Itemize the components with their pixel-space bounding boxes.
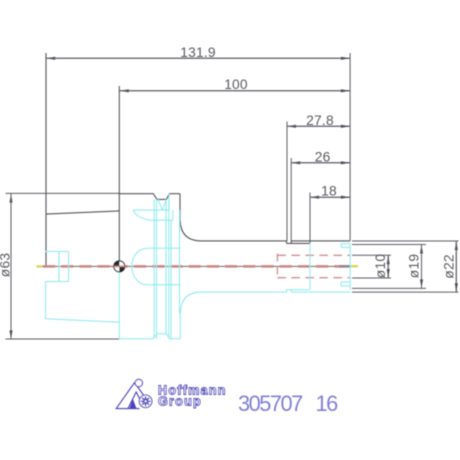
dim line 100 [120,90,350,92]
left face lower [45,282,47,319]
gauge plane vertical (also ext of 100) [118,86,120,267]
bore end vertical hidden [276,254,278,280]
flange groove horiz lower [150,219,173,221]
centerline yellow dash left [37,265,43,267]
logo head circle [135,379,142,386]
logo inner fold [128,392,140,409]
centerline continuous gray [38,265,351,267]
bore bottom hidden line [277,277,350,279]
cavity rounded end [132,248,147,285]
cavity bore bottom line [147,284,180,286]
svg-text:100: 100 [224,77,248,92]
extension line right common x=350 [349,53,351,241]
bottom slot-floor line [287,289,310,291]
top slot rounded [341,244,350,248]
fillet to body top [180,219,201,241]
flange inner vertical g [170,220,172,339]
shank end bore rect bottom [46,281,70,283]
gauge plane lower vertical [118,267,120,339]
bottom groove verticals [286,290,288,292]
extension line x=310 (18) [309,193,311,244]
svg-text:131.9: 131.9 [180,45,216,60]
dim line 26 [291,162,350,164]
V-groove left slant [158,200,163,211]
flange vertical b [156,200,158,339]
ext line dia63 bottom [6,338,120,340]
body top line [201,240,287,242]
svg-text:16: 16 [316,391,339,416]
flange groove hook arc [133,210,150,220]
flange top edge with V-notch [119,194,180,200]
flange right face bottom [179,314,181,339]
taper bottom slant [46,319,120,323]
centerline yellow dash right [351,265,358,267]
flange right face top [179,194,181,220]
extension line x=291.2 (26) [290,158,292,241]
flange vertical e [168,194,170,210]
body bottom line [201,291,287,293]
ext line dia63 top [6,192,121,194]
logo triangle outline [116,383,139,409]
CoG quadrant upper-left [114,261,120,267]
dimension texts [0,45,457,279]
bore step vertical 1 [58,252,60,282]
flange vertical f [172,210,174,220]
bottom slot rounded [341,282,350,286]
svg-text:ø10: ø10 [373,254,388,279]
logo wordmark [158,383,227,408]
cavity bore top line [147,247,180,249]
groove step verticals [286,241,288,244]
shank end bore rect top [46,251,70,253]
end section top [291,240,350,242]
dim line 18 [310,196,350,198]
ext lines right side diameters [352,240,459,242]
svg-text:ø63: ø63 [0,253,13,278]
extension line x=287 (27.8) [286,122,288,242]
fillet to body bottom [180,292,201,314]
flange vertical a [153,200,155,339]
svg-text:305707: 305707 [238,391,303,416]
gray end dash over slots [339,265,350,268]
V-groove right slant [162,200,166,211]
flange vertical c [165,200,167,334]
svg-text:18: 18 [321,184,337,199]
CoG white disc [114,261,125,272]
logo gear ring [139,395,152,408]
CoG circle [114,261,125,272]
slot start vertical [309,243,311,289]
logo right slope [135,383,144,395]
svg-text:ø22: ø22 [442,254,457,278]
bore top hidden line [277,254,350,256]
end section bottom [291,291,350,293]
dim line dia22 [455,241,457,292]
CoG center red dash overlay [112,265,127,267]
dim line dia63 vertical [10,194,12,340]
flange bottom edge with notch [119,334,180,339]
flange groove horiz upper [133,209,169,211]
dim line dia19 [421,245,423,289]
dim line dia10 [387,255,389,278]
dim line 27.8 [287,125,350,127]
flange inner vertical h (section face) [179,210,181,314]
logo gear center [145,400,147,402]
svg-text:27.8: 27.8 [306,113,334,128]
end face vertical [349,243,351,289]
groove/slot-bottom edge line [287,242,310,244]
logo gear star [142,397,150,405]
logo small solid triangle [129,399,136,409]
bore step vertical 2 [68,252,70,282]
left face vertical (also ext line of 131.9) [45,53,47,267]
flange vertical d [168,200,170,339]
centerline red dashes [43,265,350,268]
svg-text:ø19: ø19 [407,254,422,279]
svg-text:26: 26 [315,149,331,164]
CoG quadrant lower-right [119,266,125,272]
dim line 131.9 [46,57,350,59]
svg-text:Group: Group [158,395,202,409]
taper top slant [46,211,119,214]
